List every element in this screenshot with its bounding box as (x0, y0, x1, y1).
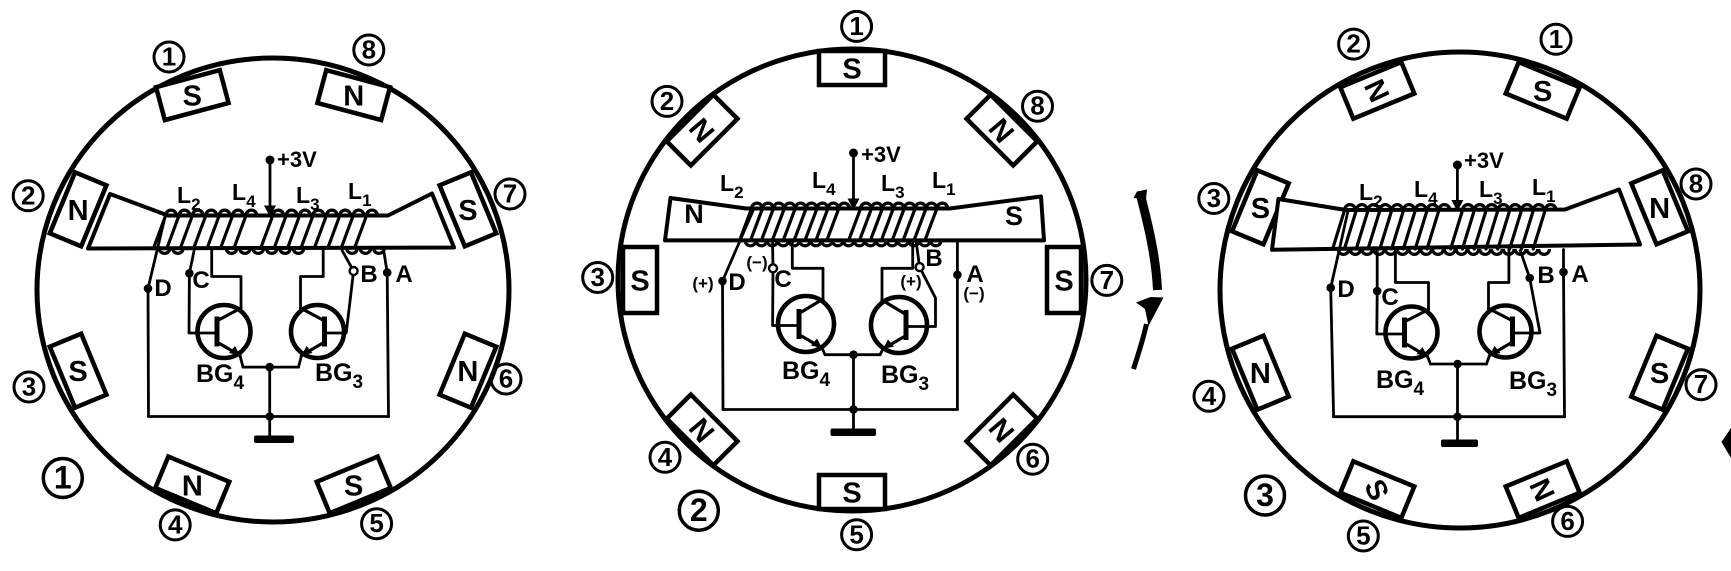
+3V supply terminal (left) (266, 156, 275, 165)
magnet 4N (middle) (667, 395, 738, 466)
position number 8 (left) (354, 35, 384, 65)
svg-text:2: 2 (1346, 29, 1360, 59)
svg-text:S: S (1650, 358, 1669, 390)
BG3 collector wire (middle) (882, 240, 913, 300)
winding turns (middle) (752, 203, 763, 208)
position number 6 (left) (491, 364, 521, 394)
svg-text:D: D (154, 275, 171, 302)
winding turns (left) (166, 210, 177, 215)
rotation direction arrow (1141, 197, 1158, 290)
svg-text:N: N (684, 199, 704, 229)
svg-text:3: 3 (1207, 183, 1221, 213)
magnet 6N (left) (440, 334, 497, 408)
bottom rail wire (left) (149, 415, 389, 418)
svg-text:5: 5 (1356, 521, 1370, 551)
svg-text:N: N (457, 356, 478, 388)
magnet 3S (left) (50, 334, 107, 408)
stator bar (left) (88, 194, 454, 249)
svg-text:+3V: +3V (861, 142, 901, 167)
BG4 collector wire (middle) (792, 240, 823, 299)
node D wire (middle) (723, 209, 755, 282)
svg-text:(+): (+) (692, 274, 713, 293)
svg-text:(+): (+) (900, 272, 921, 291)
magnet 4N (left) (155, 457, 229, 514)
emitter junction wire (left) (240, 356, 243, 368)
svg-text:S: S (344, 470, 363, 502)
svg-text:8: 8 (1689, 169, 1703, 199)
rotor rim circle (right) (1220, 52, 1700, 528)
magnet 5S (middle) (819, 475, 885, 509)
svg-text:6: 6 (499, 364, 513, 394)
svg-text:4: 4 (1202, 381, 1217, 411)
ground symbol (right) (1441, 440, 1478, 448)
position number 4 (right) (1194, 381, 1224, 411)
svg-text:A: A (1571, 261, 1588, 288)
svg-text:N: N (1649, 193, 1670, 225)
svg-text:6: 6 (1025, 444, 1039, 474)
svg-text:5: 5 (849, 519, 863, 549)
rotor rim circle (left) (37, 58, 509, 522)
svg-text:2: 2 (690, 492, 708, 528)
svg-text:(−): (−) (963, 284, 984, 303)
magnet 5S (right) (1340, 461, 1414, 518)
transistor BG3 (right) (1480, 306, 1532, 358)
svg-text:1: 1 (1549, 24, 1563, 54)
position number 8 (middle) (1023, 91, 1053, 121)
svg-text:B: B (925, 245, 942, 272)
position number 7 (right) (1686, 370, 1716, 400)
node B wire (left) (342, 251, 354, 272)
winding turns (right) (1345, 205, 1356, 210)
transistor BG4 (middle) (778, 296, 834, 352)
transistor BG3 (middle) (871, 297, 927, 353)
svg-text:1: 1 (849, 11, 863, 41)
transistor BG3 (left) (291, 305, 344, 358)
magnet 7S (middle) (1047, 247, 1081, 313)
svg-text:2: 2 (660, 86, 674, 116)
position number 5 (middle) (842, 520, 872, 550)
position number 1 (middle) (842, 11, 872, 41)
bottom rail wire (right) (1334, 415, 1565, 418)
svg-text:7: 7 (1100, 265, 1114, 295)
svg-text:5: 5 (369, 508, 383, 538)
node A wire (left) (384, 250, 388, 273)
svg-text:1: 1 (162, 42, 176, 72)
svg-text:A: A (395, 261, 412, 288)
position number 4 (left) (160, 510, 190, 540)
svg-text:C: C (774, 266, 791, 293)
figure step number 3 (right) (1246, 476, 1285, 515)
transistor BG4 (left) (198, 305, 251, 358)
position number 2 (left) (13, 181, 43, 211)
position number 2 (right) (1339, 29, 1369, 59)
svg-text:N: N (182, 470, 203, 502)
ground symbol (middle) (831, 429, 877, 437)
svg-text:C: C (192, 267, 209, 294)
svg-text:B: B (360, 261, 377, 288)
node C wire (right) (1376, 249, 1379, 291)
node A wire (right) (1562, 250, 1565, 273)
magnet 6N (middle) (967, 395, 1038, 466)
svg-text:B: B (1537, 262, 1554, 289)
svg-text:8: 8 (362, 35, 376, 65)
svg-text:7: 7 (503, 179, 517, 209)
svg-text:D: D (1337, 276, 1354, 303)
bottom rail wire (middle) (723, 408, 957, 411)
ground stem wire (left) (268, 367, 271, 416)
position number 2 (middle) (652, 86, 682, 116)
BG3 collector wire (right) (1489, 249, 1509, 309)
node C wire (middle) (771, 240, 774, 268)
svg-text:3: 3 (22, 372, 36, 402)
position number 3 (left) (14, 372, 44, 402)
position number 1 (right) (1541, 24, 1571, 54)
magnet 1S (middle) (819, 51, 885, 85)
node B wire (middle) (916, 240, 920, 267)
svg-text:S: S (1251, 193, 1270, 225)
magnet 2N (right) (1340, 62, 1414, 119)
position number 1 (left) (154, 42, 184, 72)
svg-text:N: N (68, 195, 89, 227)
emitter junction wire (right) (1428, 357, 1431, 365)
svg-text:+3V: +3V (277, 147, 317, 172)
magnet 4N (right) (1232, 336, 1289, 410)
svg-text:S: S (842, 478, 861, 510)
svg-text:S: S (842, 54, 861, 86)
position number 3 (middle) (583, 263, 613, 293)
BG4 collector wire (left) (212, 248, 241, 308)
BG4 collector wire (right) (1395, 249, 1428, 310)
node B wire (right) (1520, 250, 1530, 278)
svg-text:S: S (458, 195, 477, 227)
svg-text:D: D (728, 269, 745, 296)
svg-text:4: 4 (658, 442, 673, 472)
position number 8 (right) (1681, 169, 1711, 199)
svg-text:N: N (1250, 358, 1271, 390)
ground symbol (left) (254, 436, 294, 444)
svg-text:(−): (−) (746, 253, 767, 272)
magnet 8N (left) (317, 70, 390, 120)
magnet 3S (right) (1232, 170, 1289, 244)
svg-text:1: 1 (54, 460, 72, 496)
BG3 collector wire (left) (301, 248, 324, 308)
svg-text:S: S (183, 81, 202, 113)
magnet 6N (right) (1506, 461, 1580, 518)
magnet 1S (right) (1506, 62, 1580, 119)
magnet 5S (left) (317, 457, 391, 514)
position number 4 (middle) (650, 442, 680, 472)
ground stem wire (right) (1456, 364, 1459, 417)
svg-text:S: S (1054, 266, 1073, 298)
position number 6 (right) (1553, 506, 1583, 536)
position number 3 (right) (1199, 184, 1229, 214)
position number 6 (middle) (1018, 444, 1048, 474)
node C wire (left) (189, 251, 194, 273)
svg-text:2: 2 (21, 180, 35, 210)
svg-text:C: C (1381, 284, 1398, 311)
svg-text:S: S (630, 266, 649, 298)
position number 7 (middle) (1092, 265, 1122, 295)
cut-off arrow tip at right edge (1722, 428, 1731, 458)
node D wire (right) (1331, 211, 1348, 288)
svg-text:6: 6 (1560, 506, 1574, 536)
svg-text:S: S (1005, 201, 1023, 231)
magnet 8N (right) (1631, 170, 1688, 244)
magnet 2N (middle) (667, 95, 738, 166)
magnet 7S (right) (1631, 336, 1688, 410)
svg-text:7: 7 (1694, 369, 1708, 399)
position number 7 (left) (495, 179, 525, 209)
magnet 2N (left) (50, 172, 107, 246)
figure step number 2 (middle) (679, 491, 718, 530)
transistor BG4 (right) (1386, 307, 1438, 359)
svg-text:3: 3 (590, 262, 604, 292)
svg-text:N: N (343, 81, 364, 113)
svg-text:S: S (68, 356, 87, 388)
+3V supply terminal (middle) (849, 149, 858, 158)
magnet 8N (middle) (967, 95, 1038, 166)
rotor rim circle (middle) (618, 49, 1086, 511)
stator bar (middle) (665, 197, 1044, 241)
svg-text:4: 4 (168, 509, 183, 539)
position number 5 (right) (1348, 521, 1378, 551)
position number 5 (left) (362, 509, 392, 539)
svg-text:S: S (1533, 76, 1552, 108)
figure step number 1 (left) (43, 459, 82, 498)
magnet 3S (middle) (623, 247, 657, 313)
svg-text:8: 8 (1030, 91, 1044, 121)
magnet 7S (left) (440, 172, 497, 246)
svg-text:+3V: +3V (1464, 148, 1504, 173)
emitter junction wire (middle) (822, 348, 825, 355)
magnet 1S (left) (156, 70, 229, 120)
node D wire (left) (148, 217, 165, 289)
ground stem wire (middle) (852, 355, 855, 410)
node A wire (middle) (956, 240, 959, 274)
svg-text:3: 3 (1256, 477, 1274, 513)
stator bar (right) (1272, 190, 1640, 250)
+3V supply terminal (right) (1453, 161, 1462, 170)
